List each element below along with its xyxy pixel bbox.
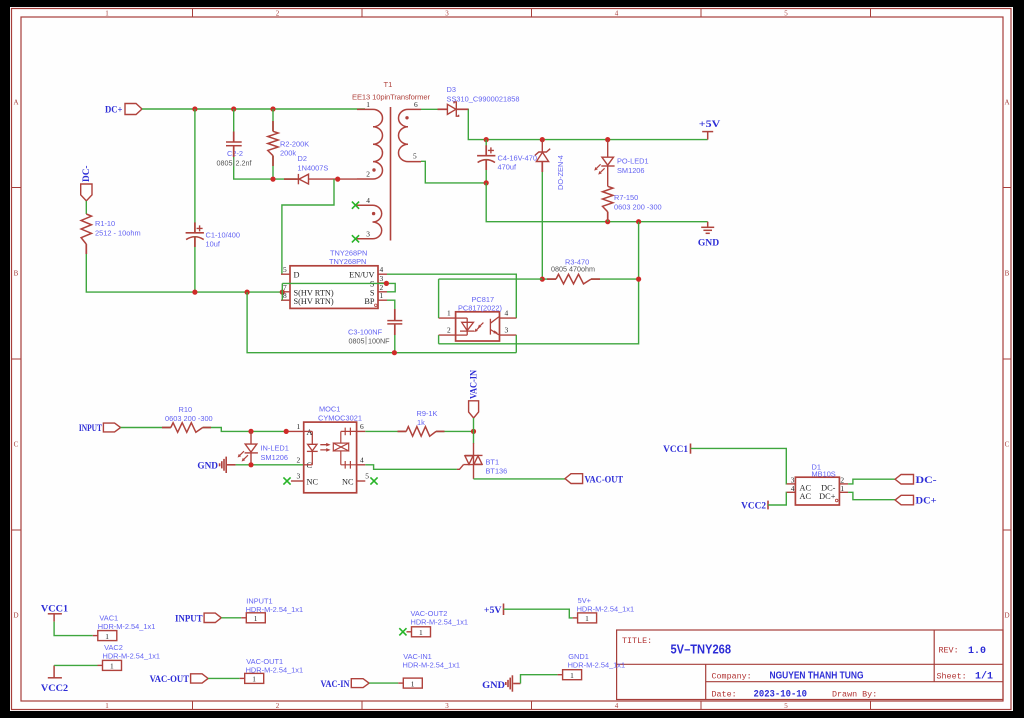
svg-text:1: 1 — [252, 675, 256, 684]
power GND symbol (input side) — [220, 457, 236, 473]
svg-text:1: 1 — [105, 702, 109, 710]
U1 pin 4 stub — [378, 273, 387, 275]
svg-text:NGUYEN THANH TUNG: NGUYEN THANH TUNG — [770, 670, 864, 682]
port INPUT — [103, 423, 120, 432]
svg-text:470uf: 470uf — [498, 163, 517, 172]
wire D3 out to +5V rail — [457, 109, 708, 139]
svg-text:C4-16V-470: C4-16V-470 — [498, 154, 537, 163]
junction — [248, 462, 253, 467]
svg-text:PO-LED1: PO-LED1 — [617, 157, 649, 166]
svg-text:D2: D2 — [298, 154, 307, 163]
junction — [392, 350, 397, 355]
svg-text:1: 1 — [570, 671, 574, 680]
svg-text:C: C — [14, 441, 19, 449]
svg-text:5: 5 — [413, 151, 417, 160]
connector INPUT1 — [241, 613, 265, 623]
svg-text:4: 4 — [615, 10, 619, 18]
power +5V symbol — [702, 132, 713, 140]
resistor R10 — [171, 423, 203, 433]
junction — [335, 177, 340, 182]
svg-text:IN-LED1: IN-LED1 — [261, 444, 289, 453]
svg-text:GND: GND — [197, 461, 218, 472]
svg-text:GND: GND — [698, 238, 719, 249]
wire EN/UV to opto pin4 — [387, 274, 516, 318]
junction — [192, 290, 197, 295]
svg-text:REV:: REV: — [939, 646, 959, 656]
diode D3 — [447, 102, 458, 116]
svg-text:VAC-OUT: VAC-OUT — [150, 674, 190, 685]
svg-text:DC-: DC- — [916, 475, 937, 486]
T1 aux winding pins 4-3 — [357, 205, 382, 239]
svg-text:0603 200 -300: 0603 200 -300 — [614, 203, 662, 212]
connector 5V+ — [573, 613, 597, 623]
wire C3 to RTN rail — [394, 324, 396, 352]
svg-text:HDR-M-2.54_1x1: HDR-M-2.54_1x1 — [577, 604, 635, 613]
wire BT1 to VAC-OUT — [474, 478, 566, 480]
no-connect X T1 pin3 — [352, 235, 359, 242]
svg-text:4: 4 — [360, 455, 364, 464]
wire node to D2 — [273, 178, 297, 180]
svg-text:3: 3 — [366, 230, 370, 239]
wire C1 to RTN — [194, 237, 196, 293]
svg-text:EE13 10pinTransformer: EE13 10pinTransformer — [352, 93, 430, 102]
wire to C1 — [194, 109, 196, 232]
junction — [248, 429, 253, 434]
svg-text:1: 1 — [105, 632, 109, 641]
junction — [540, 137, 545, 142]
wire opto pin2 drop — [438, 335, 440, 344]
svg-text:EN/UV: EN/UV — [349, 271, 374, 280]
svg-text:HDR-M-2.54_1x1: HDR-M-2.54_1x1 — [411, 617, 469, 626]
svg-text:1k: 1k — [417, 418, 425, 427]
svg-text:CYMOC3021: CYMOC3021 — [318, 413, 362, 422]
svg-text:C2-2: C2-2 — [227, 149, 243, 158]
svg-text:3: 3 — [445, 702, 449, 710]
svg-text:1: 1 — [254, 614, 258, 623]
connector VAC-OUT1 — [240, 673, 264, 683]
svg-text:VCC2: VCC2 — [41, 683, 68, 694]
port VAC-IN bottom — [351, 679, 369, 688]
svg-text:100NF: 100NF — [368, 337, 390, 346]
svg-text:200k: 200k — [280, 149, 296, 158]
T1 polarity dot pin2 — [372, 168, 375, 171]
svg-text:5: 5 — [784, 10, 788, 18]
svg-text:3: 3 — [380, 274, 384, 283]
wire VCC1 to VAC1 — [54, 622, 93, 636]
svg-text:DC+: DC+ — [105, 105, 123, 116]
connector GND1 — [558, 670, 582, 680]
svg-text:1: 1 — [840, 484, 844, 493]
capacitor C4 (electrolytic) — [477, 147, 495, 162]
wire T1 pin5 to C4- — [421, 161, 486, 183]
svg-text:+5V: +5V — [699, 119, 721, 130]
svg-text:4: 4 — [380, 265, 384, 274]
T1 polarity dot pin4 — [372, 212, 375, 215]
wire R9 to BT1 node — [436, 430, 473, 432]
svg-text:R9-1K: R9-1K — [417, 409, 438, 418]
svg-text:NC: NC — [342, 477, 354, 486]
port DC+ output — [895, 495, 913, 505]
svg-text:B: B — [14, 270, 19, 278]
T1 secondary winding pins 6-5 — [398, 109, 421, 161]
wire R7 to GND rail — [607, 212, 609, 222]
svg-text:2023-10-10: 2023-10-10 — [754, 690, 808, 701]
junction — [284, 429, 289, 434]
svg-text:DC-: DC- — [81, 166, 92, 183]
junction — [484, 180, 489, 185]
svg-text:INPUT: INPUT — [79, 423, 102, 434]
svg-text:0805: 0805 — [217, 159, 233, 168]
U3 pin 1 stub — [286, 430, 304, 432]
junction — [231, 106, 236, 111]
LED IN-LED1 — [245, 431, 258, 464]
wire RTN rail — [247, 292, 516, 353]
optotriac U3 MOC3021 body — [304, 422, 357, 493]
wire opto pin3 to RTN — [515, 335, 517, 353]
zener diode DO-ZEN-4 — [535, 140, 550, 165]
svg-text:HDR-M-2.54_1x1: HDR-M-2.54_1x1 — [246, 666, 304, 675]
U3 internal triac — [333, 428, 356, 469]
svg-text:1: 1 — [447, 309, 451, 318]
junction — [192, 106, 197, 111]
svg-text:1: 1 — [380, 291, 384, 300]
power GND symbol — [701, 222, 714, 234]
junction — [245, 290, 250, 295]
resistor R2 — [268, 131, 278, 155]
svg-text:VCC2: VCC2 — [741, 501, 766, 512]
U2 internal LED — [456, 318, 475, 335]
svg-text:5V–TNY268: 5V–TNY268 — [671, 642, 732, 657]
port VAC-OUT bottom — [191, 674, 209, 683]
wire DC- to R1 — [85, 201, 87, 214]
connector VAC1 — [93, 631, 117, 641]
wire pin2 hook — [386, 283, 395, 291]
svg-text:R7-150: R7-150 — [614, 193, 638, 202]
power VCC2 symbol (bottom) — [48, 665, 62, 677]
wire D1 pin2 to DC- — [848, 479, 895, 484]
junction — [270, 106, 275, 111]
power GND symbol (bottom) — [506, 675, 521, 691]
wire S pins tie — [282, 282, 386, 284]
wire GND to GND1 — [521, 675, 558, 684]
power VCC1 bar — [690, 444, 692, 454]
svg-text:1/1: 1/1 — [975, 671, 993, 683]
svg-text:VAC-IN: VAC-IN — [469, 370, 480, 399]
svg-text:4: 4 — [366, 196, 370, 205]
wire GND drop to opto pin2 — [439, 222, 639, 344]
junction — [384, 281, 389, 286]
power +5V bar (bottom) — [503, 604, 505, 616]
wire VAC-OUT to VAC-OUT1 — [208, 677, 240, 679]
U1 pin 1 stub — [378, 299, 387, 301]
svg-text:BT1: BT1 — [486, 458, 500, 467]
wire R2 to D2 node — [272, 156, 274, 179]
diode D2 — [298, 174, 308, 184]
svg-text:1: 1 — [105, 10, 109, 18]
wire VAC-IN to node — [473, 418, 475, 444]
svg-text:R1-10: R1-10 — [95, 219, 115, 228]
wire secondary GND rail — [486, 183, 708, 222]
power VCC1 symbol (bottom) — [48, 614, 62, 622]
wire VCC1 to D1 pin3 — [691, 448, 787, 484]
junction — [484, 137, 489, 142]
wire R1 to RTN — [86, 244, 282, 292]
svg-text:C: C — [307, 461, 313, 470]
wire opto pin4 to BT1 gate — [365, 465, 457, 470]
wire node to R3 — [542, 278, 556, 280]
svg-text:HDR-M-2.54_1x1: HDR-M-2.54_1x1 — [103, 652, 161, 661]
svg-text:A: A — [1004, 99, 1009, 107]
svg-text:2: 2 — [276, 10, 280, 18]
no-connect X T1 pin4 — [352, 202, 359, 209]
wire C4 to gnd node — [485, 160, 487, 183]
connector VAC-IN1 — [398, 678, 422, 688]
port DC- — [81, 184, 92, 201]
junction — [605, 137, 610, 142]
svg-text:2: 2 — [447, 326, 451, 335]
T1 core — [390, 107, 392, 241]
optocoupler U2 PC817 body — [456, 312, 500, 341]
bridge rectifier D1 MB10S body — [795, 477, 839, 505]
D1 pin stubs — [787, 484, 848, 492]
svg-text:D: D — [294, 271, 300, 280]
svg-text:3: 3 — [445, 10, 449, 18]
svg-text:+5V: +5V — [484, 605, 502, 616]
svg-text:T1: T1 — [384, 80, 393, 89]
wire VCC2 to VAC2 — [54, 664, 97, 666]
svg-text:1: 1 — [585, 614, 589, 623]
svg-text:NC: NC — [307, 477, 319, 486]
svg-text:0805 470ohm: 0805 470ohm — [551, 265, 595, 274]
svg-text:MOC1: MOC1 — [319, 405, 340, 414]
U1 pin D stub — [281, 273, 290, 275]
svg-text:DC+: DC+ — [916, 496, 937, 507]
svg-text:SS310_C9900021858: SS310_C9900021858 — [447, 95, 520, 104]
svg-text:10uf: 10uf — [206, 240, 221, 249]
svg-text:C: C — [1005, 441, 1010, 449]
LED PO-LED1 — [601, 140, 614, 187]
wire VAC-IN to VAC-IN1 — [369, 682, 398, 684]
svg-text:4: 4 — [505, 309, 509, 318]
wire zener to opto node — [541, 164, 543, 279]
svg-text:MB10S: MB10S — [812, 469, 836, 478]
wire to R2 — [272, 109, 274, 131]
wire R10 to opto pin1 — [203, 428, 287, 432]
U3 pin stubs — [291, 431, 365, 481]
junction — [636, 219, 641, 224]
svg-text:2: 2 — [276, 702, 280, 710]
svg-text:GND: GND — [482, 680, 505, 691]
svg-text:A: A — [307, 428, 313, 437]
junction — [636, 277, 641, 282]
svg-text:Drawn By:: Drawn By: — [832, 690, 877, 700]
connector VAC-OUT2 — [407, 627, 431, 637]
svg-text:SM1206: SM1206 — [617, 166, 645, 175]
svg-text:HDR-M-2.54_1x1: HDR-M-2.54_1x1 — [98, 622, 156, 631]
op-amp U1 TNY268PN body — [290, 266, 378, 309]
wire D1 pin1 to DC+ — [848, 492, 895, 499]
svg-text:3: 3 — [505, 326, 509, 335]
svg-text:INPUT: INPUT — [175, 613, 203, 624]
svg-text:PC817(2022): PC817(2022) — [458, 303, 502, 312]
svg-text:5: 5 — [283, 265, 287, 274]
T1 polarity dot pin6 — [405, 116, 408, 119]
title block — [617, 630, 1003, 700]
transformer T1 — [352, 80, 430, 241]
svg-text:D3: D3 — [447, 85, 456, 94]
svg-text:1: 1 — [110, 662, 114, 671]
U1 pin 3 stub — [378, 282, 387, 284]
wire GND to opto pin2 — [236, 464, 304, 466]
svg-text:1: 1 — [411, 679, 415, 688]
U2 pin stubs — [439, 318, 517, 335]
svg-text:VCC1: VCC1 — [41, 604, 68, 615]
no-connect X U3 pin3 — [283, 477, 290, 484]
svg-text:C1-10/400: C1-10/400 — [206, 231, 241, 240]
no-connect X VAC-OUT2 — [399, 628, 406, 635]
wire VCC2 to D1 pin4 — [768, 492, 787, 505]
svg-text:HDR-M-2.54_1x1: HDR-M-2.54_1x1 — [568, 661, 626, 670]
svg-text:R2-200K: R2-200K — [280, 140, 309, 149]
svg-text:BP: BP — [364, 297, 375, 306]
junction — [270, 177, 275, 182]
svg-text:B: B — [1005, 270, 1010, 278]
svg-text:AC: AC — [800, 492, 812, 501]
svg-text:DC+: DC+ — [819, 492, 836, 501]
svg-text:A: A — [13, 99, 18, 107]
svg-text:Company:: Company: — [712, 671, 752, 681]
T1 primary winding pins 1-2 — [357, 109, 383, 179]
svg-text:8: 8 — [283, 291, 287, 300]
capacitor C3 — [387, 321, 402, 324]
resistor R7 — [603, 186, 613, 212]
wire to C4 — [485, 140, 487, 155]
component pin leads — [86, 109, 607, 431]
U3 internal LED — [304, 431, 331, 464]
svg-text:HDR-M-2.54_1x1: HDR-M-2.54_1x1 — [246, 605, 304, 614]
wire INPUT to INPUT1 — [221, 617, 241, 619]
wire opto pin1 drop — [438, 279, 440, 318]
svg-text:D: D — [13, 612, 18, 620]
svg-text:3: 3 — [297, 472, 301, 481]
svg-text:VCC1: VCC1 — [663, 444, 688, 455]
wire +5V to 5V+ — [504, 609, 573, 618]
wire to C2 — [233, 109, 235, 142]
wire opto feed — [439, 278, 543, 280]
U1 pin 7 stub — [281, 291, 290, 293]
wire T1 pin6 to D3 — [421, 108, 446, 110]
svg-text:S(HV RTN): S(HV RTN) — [294, 297, 334, 306]
svg-text:TNY268PN: TNY268PN — [329, 257, 366, 266]
wire D2 to T1 pin2 — [309, 178, 357, 180]
svg-text:2: 2 — [366, 170, 370, 179]
wire S pins tie vertical — [281, 283, 283, 300]
svg-text:VAC-OUT: VAC-OUT — [585, 474, 624, 485]
svg-text:BT136: BT136 — [486, 467, 508, 476]
wire R3 to GND drop — [591, 278, 639, 280]
wire DC+ rail — [142, 108, 365, 110]
junction — [540, 277, 545, 282]
svg-text:Date:: Date: — [712, 690, 737, 700]
svg-text:DO-ZEN-4: DO-ZEN-4 — [556, 155, 565, 190]
svg-text:0805: 0805 — [349, 337, 365, 346]
junction — [471, 429, 476, 434]
svg-text:1.0: 1.0 — [968, 646, 986, 657]
svg-text:Sheet:: Sheet: — [937, 671, 967, 681]
power VCC2 bar — [767, 501, 769, 510]
svg-text:2.2nf: 2.2nf — [236, 159, 252, 168]
svg-text:R10: R10 — [179, 405, 193, 414]
U1 pin 8 stub — [281, 299, 290, 301]
resistor R1 — [81, 214, 91, 244]
port VAC-IN — [469, 401, 479, 418]
junction — [280, 290, 285, 295]
triac BT1 — [457, 443, 483, 479]
svg-text:D: D — [1004, 612, 1009, 620]
no-connect X U3 pin5 — [370, 477, 377, 484]
U2 internal transistor — [490, 317, 499, 335]
svg-text:TITLE:: TITLE: — [622, 636, 652, 646]
U1 pin 2 stub — [378, 291, 387, 293]
wire C2 to D2 node — [234, 146, 273, 179]
resistor R9 — [406, 427, 436, 437]
svg-text:2512 - 10ohm: 2512 - 10ohm — [95, 229, 141, 238]
svg-text:4: 4 — [791, 484, 795, 493]
svg-text:0603 200 -300: 0603 200 -300 — [165, 414, 213, 423]
port DC+ — [125, 104, 142, 115]
svg-text:4: 4 — [615, 702, 619, 710]
port DC- — [895, 475, 913, 485]
svg-text:5: 5 — [365, 472, 369, 481]
port VAC-OUT — [565, 474, 583, 484]
svg-text:C3-100NF: C3-100NF — [348, 328, 383, 337]
capacitor C2 — [226, 142, 242, 146]
capacitor C1 (electrolytic) — [186, 225, 204, 239]
svg-text:VAC-IN: VAC-IN — [321, 679, 350, 690]
wire T1 pin2 to U1 D — [282, 179, 334, 274]
svg-text:HDR-M-2.54_1x1: HDR-M-2.54_1x1 — [403, 661, 461, 670]
port INPUT bottom — [204, 613, 221, 622]
svg-text:1N4007S: 1N4007S — [298, 164, 329, 173]
wire BP to C3 — [387, 300, 395, 320]
connector VAC2 — [98, 660, 122, 670]
wire opto pin6 to R9 — [365, 430, 406, 432]
svg-text:5: 5 — [784, 702, 788, 710]
svg-text:SM1206: SM1206 — [261, 453, 289, 462]
junction — [605, 219, 610, 224]
wire INPUT to R10 — [121, 427, 171, 429]
svg-text:6: 6 — [360, 422, 364, 431]
resistor R3 — [556, 274, 591, 284]
svg-text:2: 2 — [297, 455, 301, 464]
svg-text:1: 1 — [297, 422, 301, 431]
svg-text:1: 1 — [419, 628, 423, 637]
